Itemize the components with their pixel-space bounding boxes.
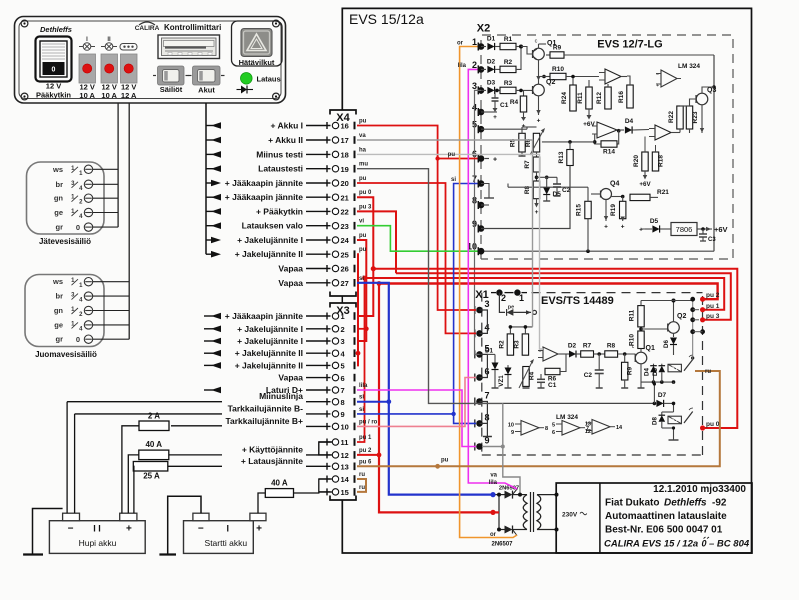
waste water tank Jatevesisailio <box>27 162 105 234</box>
Startti minus terminal post <box>193 513 209 521</box>
svg-text:11: 11 <box>341 438 349 447</box>
svg-text:+ Jakelujännite II: + Jakelujännite II <box>235 360 303 370</box>
fuse 40A starter <box>258 493 265 513</box>
svg-text:pu: pu <box>359 176 367 182</box>
control panel enclosure <box>15 17 286 104</box>
svg-text:Startti akku: Startti akku <box>205 538 248 548</box>
svg-text:D5: D5 <box>652 367 659 375</box>
svg-text:EVS 12/7-LG: EVS 12/7-LG <box>597 39 662 51</box>
transistor Q3 <box>696 93 708 105</box>
svg-text:R2: R2 <box>504 59 513 66</box>
svg-text:+: + <box>535 209 539 216</box>
wire pu X4 pin16 to X1 pin3 and X2 pin6 <box>357 126 476 311</box>
+6V under R20 <box>644 171 646 175</box>
X2 pin 8 stub <box>481 204 489 206</box>
svg-text:EVS/TS 14489: EVS/TS 14489 <box>541 295 614 307</box>
breaker button 12V 10A no.2 <box>101 54 118 83</box>
svg-text:−: − <box>656 72 659 78</box>
wire ru X3 pin14-15 hook <box>357 479 366 492</box>
resistor R20 <box>642 152 648 171</box>
tank2 wire gn <box>93 310 130 312</box>
breaker switch I icon <box>79 46 83 48</box>
red stub dots TS right <box>700 297 705 302</box>
connector X3 header <box>330 303 356 308</box>
svg-text:R3: R3 <box>504 80 513 87</box>
svg-text:+ Akku I: + Akku I <box>270 121 303 131</box>
svg-text:pu 6: pu 6 <box>359 459 372 465</box>
resistor R3 <box>495 89 500 91</box>
ground symbol Startti <box>168 496 201 554</box>
svg-text:gr: gr <box>56 335 64 344</box>
wire ru X3 pin13 to relay K1 <box>357 371 720 466</box>
svg-text:3: 3 <box>485 299 490 309</box>
svg-text:pu: pu <box>359 233 367 239</box>
regulator 7806 <box>660 228 671 230</box>
X4 pin 24 + Jakelujännite I <box>206 239 213 241</box>
dashed box EVS/TS 14489 <box>481 293 483 455</box>
panel feed bus to X4 labels <box>205 103 207 254</box>
X3 pin 5 + Jakelujännite II <box>204 364 213 366</box>
svg-text:Fiat Dukato: Fiat Dukato <box>605 498 659 509</box>
svg-text:pu 3: pu 3 <box>359 204 372 210</box>
svg-text:−: − <box>539 349 542 355</box>
resistor R10 <box>542 75 546 79</box>
tank1 wire br <box>93 183 118 185</box>
control meter display <box>158 35 220 59</box>
svg-text:si: si <box>359 407 364 413</box>
red bus line 4 to pu2 <box>379 284 718 300</box>
svg-text:D2: D2 <box>568 343 577 350</box>
wire pu3 X4 pin22 riser to bus2 <box>357 211 396 273</box>
transistor Q2 <box>533 84 545 96</box>
svg-text:R9: R9 <box>627 366 634 375</box>
panel screw top-left <box>21 20 28 27</box>
svg-text:C2: C2 <box>584 372 593 379</box>
diode D8 loop <box>673 403 675 412</box>
capacitor C1 <box>494 90 496 98</box>
junction R7 R8 <box>536 172 538 181</box>
transistor Q1 lower <box>635 352 647 364</box>
svg-text:15: 15 <box>341 488 349 497</box>
svg-text:Miinus testi: Miinus testi <box>256 149 303 159</box>
svg-text:7: 7 <box>485 391 490 401</box>
svg-text:−: − <box>198 524 204 535</box>
svg-text:6: 6 <box>341 374 345 383</box>
svg-text:X2: X2 <box>477 23 490 35</box>
svg-text:R4: R4 <box>529 371 536 380</box>
Hupi minus terminal post <box>63 513 80 521</box>
connector X3 bottom bracket <box>330 496 356 501</box>
long sense line to D7 <box>503 402 655 404</box>
junction bar under K1 <box>641 381 674 383</box>
resistor R24 <box>572 77 574 86</box>
svg-text:R13: R13 <box>558 151 565 163</box>
resistor R7 lower <box>576 353 581 355</box>
bracket X1 pins 3-4 <box>480 310 488 333</box>
resistor R19 <box>622 197 624 202</box>
svg-text:C2: C2 <box>562 187 571 194</box>
Q3 collector <box>702 87 714 93</box>
svg-text:Säiliöt: Säiliöt <box>160 85 183 94</box>
svg-text:ha: ha <box>359 147 367 153</box>
svg-text:R1: R1 <box>504 36 513 43</box>
svg-text:C3: C3 <box>708 237 716 243</box>
resistor R2 lower <box>507 334 513 355</box>
right inner rail TS <box>692 299 694 359</box>
X3 pin 15 ru <box>319 491 331 493</box>
R5 R6 top bar <box>522 126 537 128</box>
svg-text:20: 20 <box>341 179 349 188</box>
svg-text:230V: 230V <box>562 512 578 519</box>
diode D4 lower <box>653 364 655 366</box>
svg-text:6: 6 <box>552 430 555 436</box>
svg-text:Q2: Q2 <box>677 313 686 320</box>
svg-text:gn: gn <box>54 194 64 203</box>
svg-text:+ Käyttöjännite: + Käyttöjännite <box>242 444 303 454</box>
resistor R21 <box>611 196 623 198</box>
svg-text:+: + <box>493 114 497 121</box>
svg-text:0: 0 <box>702 539 707 549</box>
Startti plus terminal post <box>250 513 266 521</box>
svg-text:D5: D5 <box>650 218 659 225</box>
op-amp U2 lower <box>543 347 558 361</box>
svg-text:R15: R15 <box>576 204 583 216</box>
battery Startti akku <box>184 521 254 554</box>
svg-text:−: − <box>68 524 74 535</box>
top rail TS <box>641 300 693 302</box>
svg-text:13: 13 <box>585 422 591 428</box>
svg-text:R7: R7 <box>583 343 592 350</box>
svg-text:25: 25 <box>341 250 349 259</box>
test point diode pe <box>499 293 505 313</box>
svg-text:pu: pu <box>359 119 367 125</box>
svg-text:+: + <box>621 224 625 231</box>
svg-text:+ Akku II: + Akku II <box>268 135 303 145</box>
svg-text:R10: R10 <box>629 334 636 346</box>
svg-text:12: 12 <box>585 429 591 435</box>
main switch 12V Paakytkin <box>36 37 72 82</box>
svg-text:+6V: +6V <box>714 225 728 234</box>
svg-text:VZ1: VZ1 <box>498 375 505 387</box>
svg-text:0: 0 <box>76 223 80 232</box>
svg-text:9: 9 <box>341 410 345 419</box>
svg-text:25 A: 25 A <box>143 472 160 481</box>
svg-text:c: c <box>535 39 538 45</box>
svg-text:10: 10 <box>508 423 514 429</box>
svg-text:K2: K2 <box>671 418 678 424</box>
svg-text:+ Jääkaapin jännite: + Jääkaapin jännite <box>225 311 303 321</box>
op-amp U3B <box>562 421 580 436</box>
svg-text:12.1.2010 mjo33400: 12.1.2010 mjo33400 <box>653 484 746 495</box>
resistor R11 <box>586 87 592 109</box>
wire transformer bottom feed <box>493 511 499 513</box>
svg-text:R2: R2 <box>499 340 506 349</box>
X4 pin 27 Vapaa <box>306 282 331 284</box>
svg-text:Dethleffs: Dethleffs <box>40 25 72 34</box>
svg-text:Miinuslinja: Miinuslinja <box>259 391 303 401</box>
op-amp U3A <box>521 421 539 436</box>
wire va X4 pin17 to R3 top <box>357 140 533 327</box>
capacitor C3 <box>701 227 705 231</box>
svg-text:pu: pu <box>448 152 456 158</box>
svg-text:+ Jääkaapin jännite: + Jääkaapin jännite <box>225 178 303 188</box>
svg-text:Akut: Akut <box>198 86 215 95</box>
svg-text:D3: D3 <box>487 80 496 87</box>
diode D2 lower <box>566 353 569 355</box>
svg-text:10 A: 10 A <box>101 91 117 100</box>
svg-text:CALIRA: CALIRA <box>135 25 160 32</box>
resistor R4 <box>523 90 525 96</box>
X3 pin 11 pu 1 <box>319 441 331 443</box>
capacitor C2 <box>556 177 558 184</box>
svg-text:br: br <box>56 292 64 301</box>
capacitor C1 lower <box>537 378 545 380</box>
svg-text:Latauksen valo: Latauksen valo <box>242 221 303 231</box>
svg-text:Lataustesti: Lataustesti <box>258 164 303 174</box>
svg-text:R10: R10 <box>552 66 564 73</box>
svg-text:Kontrollimittari: Kontrollimittari <box>164 23 221 32</box>
Q2 emitter arrow <box>538 96 540 115</box>
svg-text:LM 324: LM 324 <box>556 414 578 421</box>
wire pu X4 pin25 down to X3 pins 4-5 <box>357 254 358 365</box>
X3 pin 8 Miinuslinja <box>67 401 222 403</box>
X3 pin 7 Laturi D+ <box>204 389 213 391</box>
junction C2 <box>594 353 605 355</box>
wire vi X4 pin23 to X2 pin10 <box>357 226 478 252</box>
relay K1 switch <box>684 360 693 371</box>
X3 pin 14 ru <box>319 478 331 480</box>
Sailiot rocker switch <box>153 75 156 77</box>
svg-text:C1: C1 <box>548 382 557 389</box>
X3 pin 9 Tarkkailujännite B- <box>75 413 222 415</box>
resistor R23 <box>686 106 692 129</box>
svg-text:Jätevesisäiliö: Jätevesisäiliö <box>39 237 91 246</box>
bracket X1 pins 7-8 <box>480 402 488 424</box>
X4 pin 22 + Pääkytkin <box>206 210 213 212</box>
svg-text:3: 3 <box>472 81 477 91</box>
transformer core <box>530 492 532 532</box>
resistor R12 <box>605 87 611 109</box>
resistor R22 <box>677 106 683 129</box>
charge diode symbol <box>237 89 247 91</box>
svg-text:lila: lila <box>489 480 498 486</box>
feedback line R13 to op-amp U1B <box>542 141 595 143</box>
svg-text:Q4: Q4 <box>610 181 619 188</box>
ground bar C1 VZ1 D1 <box>492 387 499 389</box>
breaker button 12V 12A <box>121 54 138 83</box>
X3 pin 4 + Jakelujännite II <box>204 352 213 354</box>
Akut rocker switch <box>189 75 192 77</box>
relay K2 switch <box>684 412 693 424</box>
svg-text:Vapaa: Vapaa <box>278 373 303 383</box>
svg-text:R3: R3 <box>514 340 521 349</box>
svg-text:17: 17 <box>341 136 349 145</box>
diode D6 lower <box>673 333 675 337</box>
svg-text:40 A: 40 A <box>271 479 288 488</box>
X4 pin 21 + Jääkaapin jännite <box>206 196 213 198</box>
panel screw bottom-left <box>21 93 28 100</box>
svg-text:5: 5 <box>552 423 555 429</box>
diode D2 <box>481 68 486 70</box>
svg-text:8: 8 <box>341 398 345 407</box>
transformer secondary leads <box>537 494 557 496</box>
svg-text:vi: vi <box>359 219 364 225</box>
svg-text:D7: D7 <box>658 392 667 399</box>
svg-text:va: va <box>359 133 366 139</box>
fuse 25A <box>168 465 223 467</box>
diode D7 <box>656 400 663 407</box>
svg-text:pu 0: pu 0 <box>359 190 372 196</box>
svg-text:D8: D8 <box>652 416 659 424</box>
svg-text:D1: D1 <box>485 348 493 355</box>
svg-text:pu 1: pu 1 <box>706 303 720 310</box>
svg-text:0: 0 <box>76 335 80 344</box>
thyristor bridge verticals <box>498 495 500 530</box>
resistor R11 lower <box>638 306 644 327</box>
X4 pin 20 + Jääkaapin jännite <box>206 182 213 184</box>
resistor R8 <box>533 181 539 199</box>
svg-text:3: 3 <box>341 337 345 346</box>
diode D1 lower <box>494 360 496 365</box>
svg-text:lila: lila <box>359 383 368 389</box>
svg-text:pu / ro: pu / ro <box>359 419 378 425</box>
svg-text:27: 27 <box>341 279 349 288</box>
resistor R6 lower <box>545 368 560 374</box>
resistor R7 <box>536 152 538 157</box>
svg-text:R8: R8 <box>607 343 616 350</box>
svg-text:R18: R18 <box>658 155 665 167</box>
X2 pin 10 rail <box>481 250 714 252</box>
op-amp U1B <box>597 122 617 138</box>
Hupi plus terminal post <box>120 513 137 521</box>
svg-text:-92: -92 <box>712 498 727 509</box>
ground symbol Hupi <box>33 509 63 555</box>
X3 pin 3 + Jakelujännite I <box>204 340 213 342</box>
svg-text:si: si <box>451 177 456 183</box>
wire pu branch to X2 pin6 <box>438 158 478 160</box>
svg-text:gn: gn <box>54 306 64 315</box>
X1 pin 1 <box>505 292 514 294</box>
bracket X3 pins 11-12 <box>319 442 333 455</box>
svg-text:R9: R9 <box>553 45 562 52</box>
red bus line 1 to pu0 <box>373 269 737 428</box>
diode D1 <box>481 46 486 48</box>
EVS 15/12a outer box <box>342 8 751 553</box>
svg-text:1: 1 <box>472 37 477 47</box>
wire green junction dot X2 pin10 <box>478 248 485 255</box>
svg-text:+: + <box>639 227 643 234</box>
svg-text:R24: R24 <box>561 92 568 104</box>
relay K2 <box>668 416 681 424</box>
resistor R1 <box>495 46 500 48</box>
wire Tarkkailujannite B- to battery minus <box>74 414 76 513</box>
X3 pin 1 + Jääkaapin jännite <box>204 315 213 317</box>
svg-text:12 V: 12 V <box>46 82 61 91</box>
svg-text:22: 22 <box>341 208 349 217</box>
svg-text:+ Jakelujännite II: + Jakelujännite II <box>235 249 303 259</box>
svg-text:pu 0: pu 0 <box>706 421 720 428</box>
svg-text:1: 1 <box>341 312 345 321</box>
op-amp U2 input feed <box>495 350 538 354</box>
Q4 emitter <box>605 200 607 222</box>
svg-text:R11: R11 <box>577 92 584 104</box>
svg-text:+: + <box>656 83 659 89</box>
svg-text:5: 5 <box>341 362 345 371</box>
svg-text:Dethleffs: Dethleffs <box>664 498 707 509</box>
svg-text:+6V: +6V <box>639 181 651 188</box>
svg-text:+6V: +6V <box>583 121 595 128</box>
svg-text:CALIRA EVS 15 / 12a: CALIRA EVS 15 / 12a <box>604 539 698 550</box>
resistor R5 <box>519 133 525 152</box>
svg-text:8: 8 <box>545 426 548 432</box>
resistor R8 lower <box>605 351 618 357</box>
svg-text:ru: ru <box>359 472 365 478</box>
resistor R9 lower <box>622 362 628 380</box>
zener VZ1 <box>507 365 509 369</box>
title block frame <box>556 483 752 553</box>
svg-text:+: + <box>256 524 262 535</box>
zener D5a <box>546 177 548 187</box>
X4 pin 18 Miinus testi <box>206 153 213 155</box>
Lataus LED <box>241 73 253 85</box>
svg-text:D6: D6 <box>663 339 670 347</box>
X1 pin5 gray feed from X2 pin3 <box>475 90 482 354</box>
X4 pin 23 Latauksen valo <box>206 225 213 227</box>
X2 pin 4 stub <box>481 111 497 113</box>
svg-text:+ Pääkytkin: + Pääkytkin <box>256 206 303 216</box>
svg-text:+ Latausjännite: + Latausjännite <box>241 456 303 466</box>
transistor Q1 <box>533 48 545 60</box>
svg-text:K1: K1 <box>671 367 678 373</box>
+6V arrow under R11 <box>588 109 590 115</box>
svg-text:or: or <box>457 41 464 47</box>
LM 324 symbol <box>661 70 677 87</box>
X4 pin 26 Vapaa <box>306 268 331 270</box>
svg-text:14: 14 <box>616 425 623 431</box>
resistor R15 <box>585 201 591 218</box>
wire X1 pin9 sense branch <box>502 403 504 446</box>
trimmer R6 <box>533 133 539 152</box>
svg-text:si: si <box>359 395 364 401</box>
svg-text:pu 3: pu 3 <box>706 313 720 320</box>
tank1 wire ws <box>93 168 118 170</box>
svg-text:13: 13 <box>341 463 349 472</box>
X2 pin 7 stub terminator <box>481 184 489 199</box>
svg-text:D4: D4 <box>644 367 651 375</box>
resistor R16 <box>627 85 633 108</box>
X1 pin 8 terminator <box>486 423 488 436</box>
transistor Q4 <box>601 189 612 200</box>
thyristor top gate <box>513 489 518 495</box>
svg-text:10: 10 <box>341 423 349 432</box>
dashed box EVS 12/7-LG <box>481 35 733 259</box>
wire lila X3 pin7 to X1 pin9 <box>357 390 476 447</box>
X3 pin 2 + Jakelujännite I <box>204 328 213 330</box>
wire pu1 bus3 down to X3 pin11 <box>357 278 365 442</box>
svg-text:or: or <box>490 532 497 538</box>
tank2 wire ws <box>93 281 130 283</box>
svg-text:ru: ru <box>359 485 365 491</box>
svg-text:+ Jakelujännite II: + Jakelujännite II <box>235 348 303 358</box>
svg-text:Q3: Q3 <box>707 87 716 94</box>
svg-text:Tarkkailujännite B+: Tarkkailujännite B+ <box>225 416 303 426</box>
svg-text:19: 19 <box>341 165 349 174</box>
svg-text:9: 9 <box>511 430 514 436</box>
svg-text:2: 2 <box>472 60 477 70</box>
tank1 wire gn <box>93 197 118 199</box>
svg-text:Vapaa: Vapaa <box>278 278 303 288</box>
svg-text:ru: ru <box>705 369 711 375</box>
